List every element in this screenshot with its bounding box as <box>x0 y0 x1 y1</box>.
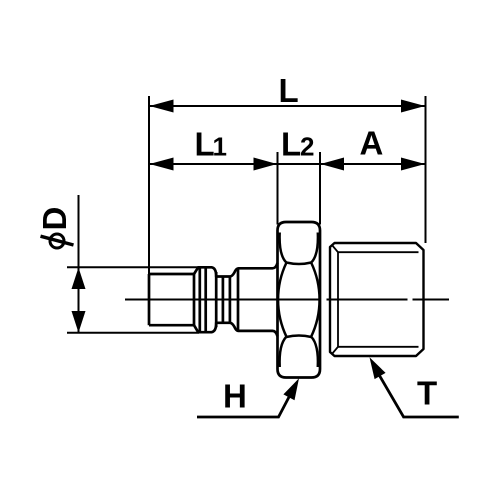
arrowhead A left <box>321 158 345 171</box>
hex bottom flare left <box>280 337 287 367</box>
svg-text:2: 2 <box>300 132 314 162</box>
extension line phiD top <box>67 266 199 268</box>
svg-text:L: L <box>279 72 299 109</box>
thread outline <box>330 243 424 356</box>
arrowhead A right <box>401 158 425 171</box>
hex bottom face boundary <box>286 336 311 338</box>
bead inner face line <box>204 267 207 332</box>
extension line hex right (x=320) <box>319 152 321 225</box>
neck left face line <box>237 268 240 331</box>
arrowhead L right <box>401 100 425 113</box>
plug bead and groove top profile <box>194 263 278 277</box>
extension line left (x=149) <box>148 96 150 274</box>
hex middle face arc left <box>278 263 286 337</box>
dimension phiD vertical line <box>78 195 80 333</box>
svg-text:H: H <box>223 378 247 415</box>
label phi symbol slash <box>41 236 74 245</box>
arrowhead L left <box>150 100 174 113</box>
hex top face boundary <box>286 263 311 265</box>
plug stem end face <box>193 274 196 325</box>
dimension line L <box>150 105 425 107</box>
leader T <box>378 373 459 417</box>
plug stem left edge <box>148 274 151 325</box>
arrowhead T <box>370 357 386 379</box>
leader H <box>197 388 294 418</box>
svg-text:A: A <box>360 125 384 162</box>
label phi symbol circle <box>50 234 64 248</box>
svg-text:1: 1 <box>213 132 227 162</box>
plug stem bottom <box>149 324 194 327</box>
svg-text:T: T <box>417 375 437 412</box>
hex top flare right <box>311 233 318 263</box>
thread run-out diagonal top <box>332 245 339 253</box>
arrowhead L1 left <box>150 158 174 171</box>
thread full-thread start vertical <box>337 252 339 347</box>
arrowhead H <box>283 378 299 400</box>
thread minor line top <box>338 251 419 253</box>
arrowhead phiD up <box>72 268 86 290</box>
extension line right (x=425.5) <box>425 96 427 243</box>
extension line phiD bottom <box>67 332 199 334</box>
bead right face line <box>215 272 218 327</box>
svg-text:D: D <box>36 207 73 231</box>
thread run-out diagonal bottom <box>332 347 339 355</box>
bead left face line <box>198 267 201 332</box>
hex middle face arc right <box>311 263 319 337</box>
plug stem top <box>149 273 194 276</box>
extension line hex left (x=277.5) <box>277 152 279 225</box>
centerline <box>125 299 449 301</box>
hex top flare left <box>280 233 287 263</box>
svg-text:L: L <box>281 126 301 163</box>
hex bottom flare right <box>311 337 318 367</box>
thread minor line bottom <box>338 346 419 348</box>
arrowhead L1 right <box>254 158 278 171</box>
hex nut outline <box>278 222 321 378</box>
groove floor face line left <box>222 277 225 323</box>
dimension line L1 L2 A <box>150 163 425 165</box>
groove floor face line right <box>229 277 232 323</box>
plug bead and groove bottom profile <box>194 323 278 337</box>
arrowhead phiD down <box>72 311 86 333</box>
